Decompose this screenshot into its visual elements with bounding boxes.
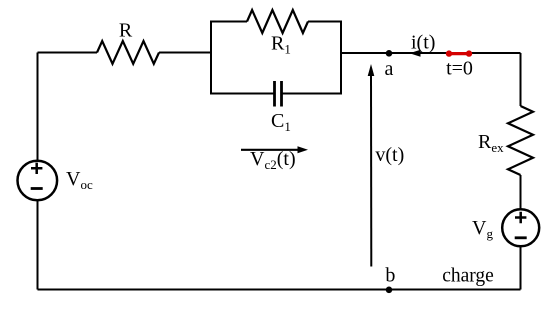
box right edge	[340, 22, 342, 94]
wire right vertical upper	[520, 53, 522, 106]
box top edge right segment	[308, 21, 342, 23]
box bottom edge left segment	[210, 93, 275, 95]
resistor Rex	[508, 106, 533, 175]
wire bottom horizontal	[38, 289, 521, 291]
box bottom edge right segment	[282, 93, 343, 95]
resistor R1	[247, 10, 308, 33]
Voc minus sign	[31, 187, 43, 190]
node a	[386, 50, 393, 57]
wire top left horizontal	[38, 52, 98, 54]
resistor R	[97, 41, 159, 64]
node b	[386, 287, 393, 294]
svg-text:charge: charge	[442, 266, 494, 287]
Vg minus sign	[515, 236, 527, 239]
switch red dot left	[446, 50, 452, 56]
arrow Vc2(t)	[241, 149, 299, 151]
wire left vertical	[37, 53, 39, 290]
Vg plus sign	[515, 212, 526, 223]
box top edge left segment	[210, 21, 247, 23]
wire Rex to Vg	[520, 175, 522, 209]
svg-text:a: a	[385, 58, 394, 80]
svg-text:i(t): i(t)	[411, 32, 435, 54]
source Vg circle	[502, 209, 539, 246]
source Voc circle	[18, 161, 58, 201]
switch red dot right	[466, 50, 472, 56]
box left edge	[210, 22, 212, 94]
wire R to box	[159, 52, 211, 54]
wire box to right corner	[341, 52, 521, 54]
svg-text:t=0: t=0	[446, 58, 473, 80]
arrow v(t)	[370, 75, 372, 267]
arrowhead i(t)	[410, 50, 421, 57]
svg-text:b: b	[385, 265, 395, 287]
capacitor C1 plate right	[280, 81, 283, 107]
svg-text:v(t): v(t)	[375, 144, 404, 166]
capacitor C1 plate left	[273, 81, 276, 107]
wire Vg to bottom	[520, 246, 522, 290]
svg-text:R: R	[119, 20, 133, 42]
Voc plus sign	[31, 163, 42, 174]
switch t=0 red bar	[449, 52, 469, 55]
